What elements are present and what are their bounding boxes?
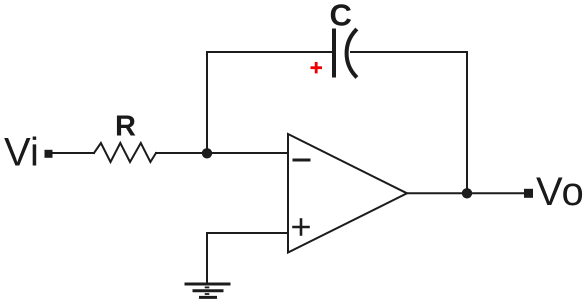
svg-text:R: R	[115, 111, 136, 143]
wire node A up to feedback	[206, 52, 208, 153]
wire feedback right down to output node	[466, 52, 468, 193]
wire feedback top left to capacitor	[207, 51, 332, 53]
wire capacitor to feedback top right	[351, 51, 467, 53]
node Vi input terminal	[45, 150, 53, 158]
wire resistor to inverting input node	[156, 152, 287, 154]
ground	[186, 284, 229, 297]
capacitor polarity + (red)	[311, 62, 323, 73]
resistor R	[94, 143, 156, 162]
op-amp inverting input minus sign	[294, 159, 309, 162]
op-amp U1 triangle	[288, 134, 407, 253]
capacitor C left plate	[332, 31, 336, 76]
node A junction dot	[202, 148, 212, 158]
capacitor C right curved plate	[347, 31, 356, 77]
svg-text:Vo: Vo	[536, 170, 585, 214]
op-amp non-inverting input plus sign	[294, 220, 309, 235]
wire non-inverting input to ground	[207, 233, 287, 283]
wire Vi to resistor R	[53, 152, 95, 154]
wire op-amp output to Vo	[407, 192, 524, 194]
node Vo output terminal	[524, 189, 533, 198]
node B output junction dot	[462, 188, 472, 198]
svg-text:C: C	[330, 0, 352, 33]
svg-text:Vi: Vi	[4, 131, 39, 175]
